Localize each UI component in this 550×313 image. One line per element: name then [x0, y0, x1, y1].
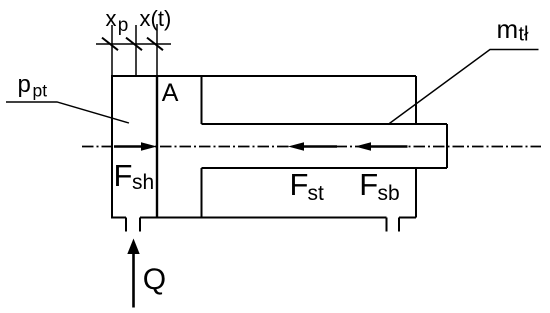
arrow F_sb — [355, 142, 408, 151]
port left — [126, 218, 140, 232]
svg-text:x(t): x(t) — [140, 6, 172, 31]
svg-text:A: A — [162, 79, 179, 107]
svg-text:st: st — [308, 182, 325, 205]
svg-text:p: p — [118, 15, 129, 36]
arrow F_sh — [114, 142, 157, 151]
piston right face — [201, 76, 203, 218]
svg-text:tł: tł — [519, 24, 530, 46]
tick 1 — [102, 38, 118, 51]
label p_pt — [18, 71, 48, 101]
extension lines — [112, 24, 157, 75]
piston rod — [202, 124, 448, 168]
svg-text:m: m — [497, 14, 519, 44]
svg-text:x: x — [106, 6, 117, 31]
label F_sb — [359, 167, 399, 205]
svg-text:sh: sh — [132, 171, 154, 194]
label m_tl — [497, 14, 530, 46]
tick 3 — [147, 38, 163, 51]
svg-text:p: p — [18, 71, 31, 98]
arrow F_st — [288, 142, 337, 151]
cylinder body outline — [112, 75, 416, 219]
arrow Q — [127, 239, 139, 308]
dimension line — [96, 43, 171, 45]
svg-text:F: F — [114, 158, 133, 193]
port right — [387, 218, 400, 232]
label F_sh — [114, 158, 155, 194]
svg-text:F: F — [290, 167, 309, 202]
label x_p — [106, 6, 129, 36]
piston face A — [156, 76, 158, 218]
tick 2 — [126, 38, 142, 51]
leader m_tl — [388, 50, 539, 125]
svg-text:F: F — [359, 167, 378, 202]
svg-text:sb: sb — [378, 182, 400, 205]
svg-text:pt: pt — [33, 81, 48, 101]
svg-text:Q: Q — [143, 263, 166, 296]
label F_st — [290, 167, 325, 205]
centerline — [82, 146, 541, 148]
leader p_pt — [6, 102, 129, 123]
